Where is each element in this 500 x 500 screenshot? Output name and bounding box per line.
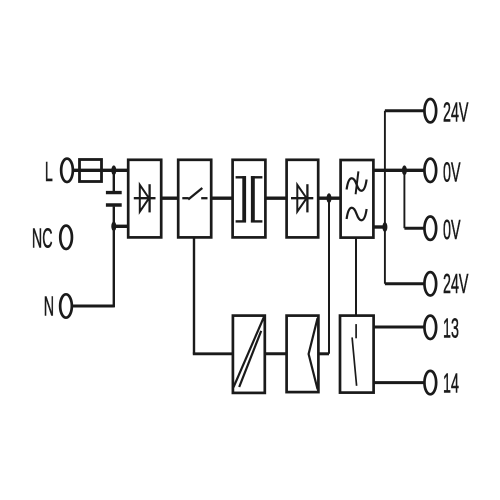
fuse F1 — [80, 160, 102, 182]
wire N to rectifier — [114, 225, 128, 228]
svg-text:N: N — [44, 290, 54, 321]
wire 24V bottom — [385, 282, 425, 285]
amplifier chevron symbol — [309, 318, 318, 389]
wire switch control drop — [193, 237, 233, 353]
filter symbol sine top — [347, 171, 367, 194]
svg-text:13: 13 — [443, 312, 459, 343]
terminal 24V top — [424, 99, 436, 122]
switch symbol — [182, 188, 207, 200]
wire switch to transformer — [211, 196, 232, 199]
svg-text:NC: NC — [32, 222, 53, 253]
diode symbol input rectifier — [134, 184, 156, 212]
terminal 0V lower — [424, 217, 436, 240]
wire filter to relay — [355, 238, 357, 316]
terminal NC — [60, 226, 72, 249]
capacitor C1 — [106, 170, 122, 226]
svg-text:0V: 0V — [443, 156, 461, 187]
diode symbol D1 — [291, 184, 313, 212]
svg-text:14: 14 — [443, 367, 459, 398]
junction node feedback — [327, 193, 332, 203]
terminal 24V bottom — [424, 272, 436, 295]
block transformer — [233, 160, 266, 238]
block output rectifier — [287, 160, 319, 238]
wire 0V lower — [404, 227, 424, 230]
wire 24V riser — [384, 111, 386, 284]
terminal N — [60, 294, 72, 317]
block input rectifier — [128, 160, 161, 238]
terminal 14 — [424, 371, 436, 394]
wire 24V top — [385, 109, 425, 112]
relay contact symbol — [352, 324, 357, 386]
wire 0V drop — [403, 170, 405, 228]
block switching stage — [178, 160, 211, 238]
wire transformer to diode — [265, 196, 286, 199]
wire N riser — [72, 226, 114, 307]
terminal 13 — [424, 316, 436, 339]
isolator symbol diagonals — [233, 317, 264, 388]
terminal 0V top — [424, 159, 436, 182]
svg-text:L: L — [45, 156, 53, 187]
svg-text:0V: 0V — [443, 214, 461, 245]
filter symbol sine bottom — [347, 208, 367, 221]
block isolator — [233, 316, 265, 393]
wire L input — [73, 169, 128, 172]
transformer symbol T1 — [236, 176, 263, 222]
junction node 24V rail — [382, 222, 387, 232]
svg-text:24V: 24V — [443, 268, 469, 299]
wire feedback riser — [318, 198, 329, 354]
wire diode to filter — [318, 196, 340, 199]
wire 0V rail — [373, 169, 424, 172]
wire contact 14 — [374, 381, 425, 384]
svg-text:24V: 24V — [443, 96, 469, 127]
wire regulator to amplifier — [265, 352, 287, 355]
junction node 0V rail — [402, 165, 407, 175]
junction node L — [111, 165, 116, 175]
wire rectifier to switch — [161, 196, 178, 199]
block output filter — [341, 160, 374, 238]
junction node N — [111, 221, 116, 231]
terminal L — [61, 159, 73, 182]
block signal relay — [340, 316, 374, 393]
block feedback amplifier — [287, 316, 319, 393]
wire contact 13 — [374, 326, 425, 329]
wire 24V output stub — [373, 225, 385, 228]
